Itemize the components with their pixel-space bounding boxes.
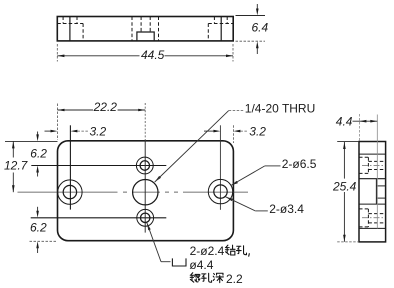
center 1/4-20 hole [133,180,158,205]
comma [248,253,251,256]
horizontal line through lower small hole [31,217,167,219]
leader from lower small hole [147,223,151,230]
extension line through side view (4.4) [376,115,378,229]
front view plate outline [58,141,234,241]
svg-text:6.2: 6.2 [30,221,47,235]
step line 2 [359,178,386,180]
svg-text:2.2: 2.2 [226,272,243,286]
svg-text:25.4: 25.4 [332,179,357,193]
vertical centerline left hole [69,125,71,209]
hidden center small holes [140,17,142,33]
left hole ø3.4 [63,185,76,198]
hidden hole left small [62,17,64,24]
left hole ø6.5 counterbore [58,180,82,204]
svg-text:44.5: 44.5 [141,48,165,62]
svg-text:2-ø3.4: 2-ø3.4 [269,202,304,216]
side view outline [359,142,386,242]
svg-text:1/4-20 THRU: 1/4-20 THRU [245,101,315,115]
leader arrow [155,176,161,182]
step line 4 [359,227,386,229]
extension line plate right edge [232,125,234,143]
svg-text:3.2: 3.2 [249,124,266,138]
hidden center thread hole [131,17,133,41]
hidden lines top view [57,17,233,41]
glyph 钻 [225,245,235,255]
thread hole lines [376,185,385,187]
svg-text:4.4: 4.4 [336,114,353,128]
upper small hole ø4.4 counterbore [136,157,153,174]
center notch vertical [375,179,377,204]
glyph 孔 [202,273,212,282]
lower small hole ø2.4 [141,213,150,222]
svg-text:6.4: 6.4 [252,21,269,35]
horizontal centerline [18,191,249,193]
step line 1 [359,153,386,155]
svg-text:2-ø2.4: 2-ø2.4 [190,244,225,258]
right hole ø3.4 [214,185,227,198]
vertical centerline right hole [219,125,221,210]
glyph 孔 [237,246,247,255]
svg-text:3.2: 3.2 [90,124,107,138]
visible edge right [220,17,222,41]
hidden hole right small [213,17,215,24]
side view centerlines [362,165,384,217]
hidden holes side view [359,157,386,227]
right hole ø6.5 counterbore [208,179,232,203]
center counterbore pocket (solid U) [137,32,154,41]
glyph 锪 [190,273,200,282]
horizontal line through upper small hole [31,165,166,167]
visible edge left [69,17,71,41]
extension of top edge to left [5,140,58,142]
svg-text:2-ø6.5: 2-ø6.5 [282,157,317,171]
svg-text:ø4.4: ø4.4 [189,258,213,272]
vertical centerline center holes [144,103,146,141]
counterbore symbol [172,258,186,266]
extension line plate left edge [57,104,59,141]
glyph 深 [213,273,223,282]
hidden counterbore right [207,24,209,41]
extension of bottom edge to left [30,240,57,242]
upper small hole ø2.4 [140,161,149,170]
lower small hole ø4.4 counterbore [137,209,154,226]
svg-text:12.7: 12.7 [4,159,29,173]
hidden counterbore left [82,24,84,41]
top view outline [57,17,233,41]
svg-text:22.2: 22.2 [93,100,118,114]
step line 3 [359,203,386,205]
svg-text:6.2: 6.2 [30,146,47,160]
